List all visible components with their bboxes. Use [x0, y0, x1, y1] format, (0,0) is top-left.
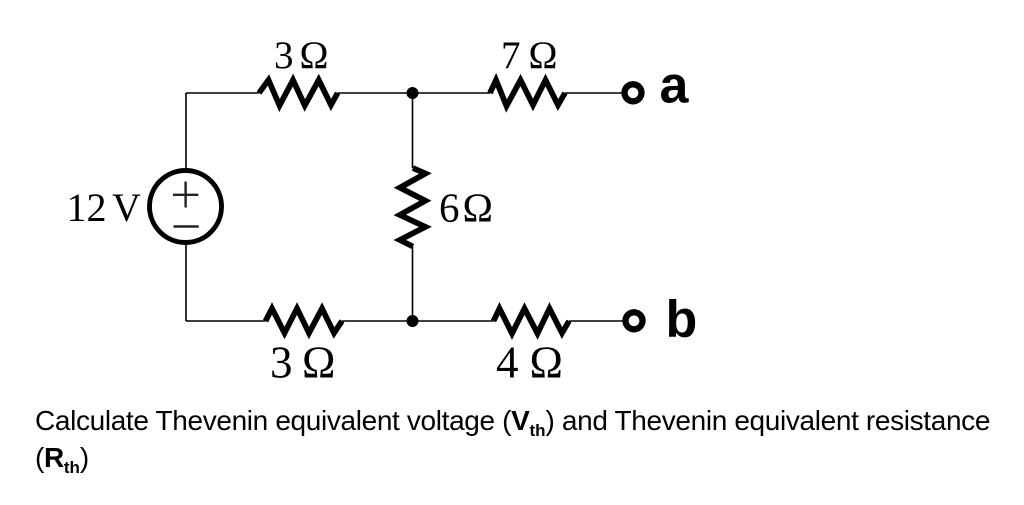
wire R4 to node B	[342, 320, 413, 322]
wire R3 to node B	[412, 247, 414, 322]
svg-text:Ω: Ω	[300, 34, 329, 77]
wire left rail upper (source to top wire)	[185, 93, 187, 169]
question text	[35, 405, 1024, 478]
resistor R5 4ohm bottom-right zigzag	[494, 309, 570, 334]
svg-text:6: 6	[439, 185, 460, 231]
svg-text:a: a	[660, 57, 690, 115]
voltage source plus sign	[173, 182, 198, 208]
wire R2 to terminal a	[565, 92, 622, 94]
wire top-middle (R1 to node A)	[338, 92, 413, 94]
svg-text:Ω: Ω	[463, 185, 493, 231]
svg-text:Ω: Ω	[302, 338, 335, 388]
svg-text:3: 3	[270, 338, 293, 388]
wire R5 to terminal b	[569, 320, 623, 322]
svg-text:Ω: Ω	[530, 338, 563, 388]
svg-text:12: 12	[67, 185, 107, 230]
wire node A to R3	[412, 93, 414, 168]
wire node A to R2	[413, 92, 491, 94]
terminal a open circle	[625, 84, 642, 101]
resistor R3 6ohm vertical zigzag	[400, 168, 426, 247]
svg-text:Ω: Ω	[529, 34, 558, 77]
wire node B to R5	[413, 320, 494, 322]
resistor R1 3ohm top-left zigzag	[259, 80, 338, 106]
voltage source V1 circle	[150, 171, 222, 243]
wire bottom-left horizontal	[186, 320, 266, 322]
terminal b open circle	[626, 312, 643, 329]
resistor R4 3ohm bottom-left zigzag	[266, 309, 343, 334]
svg-text:b: b	[666, 291, 698, 349]
wire top-left horizontal	[186, 92, 259, 94]
wire left rail lower (source to bottom wire)	[185, 245, 187, 322]
node B junction dot	[407, 315, 419, 327]
voltage source minus sign	[174, 225, 199, 227]
svg-text:V: V	[112, 185, 141, 230]
node A junction dot	[407, 87, 419, 99]
svg-text:7: 7	[501, 34, 521, 77]
svg-text:3: 3	[274, 34, 294, 77]
resistor R2 7ohm top-right zigzag	[490, 80, 565, 106]
svg-text:4: 4	[496, 338, 519, 388]
